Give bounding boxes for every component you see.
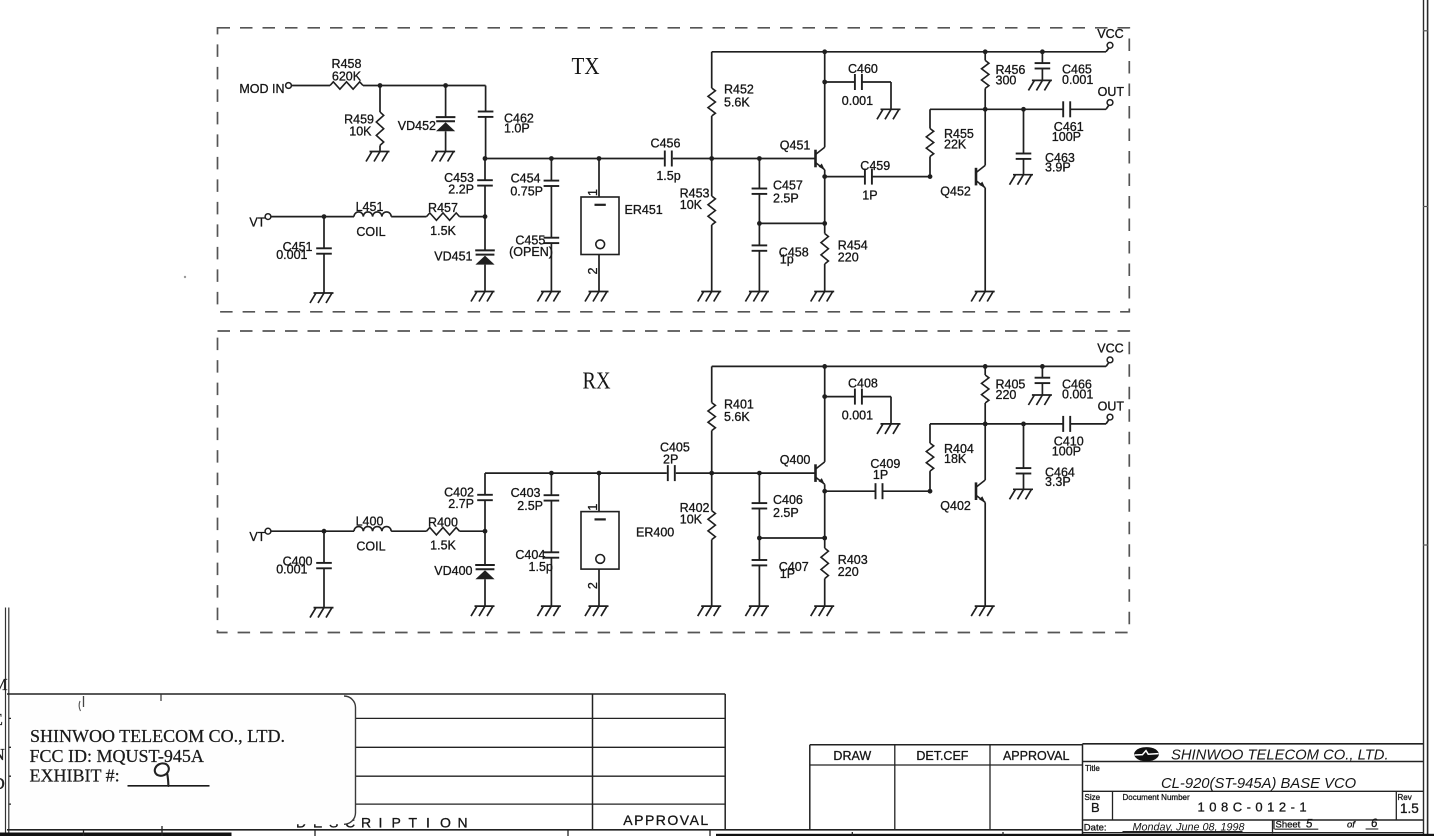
cut-off letters left margin xyxy=(0,675,8,793)
svg-text:OUT: OUT xyxy=(1098,85,1125,99)
svg-text:ER451: ER451 xyxy=(625,203,663,217)
svg-text:TX: TX xyxy=(572,54,600,80)
svg-text:CL-920(ST-945A) BASE VCO: CL-920(ST-945A) BASE VCO xyxy=(1161,776,1357,792)
ground VD451 xyxy=(471,292,495,302)
wire feedback row xyxy=(759,222,824,224)
junction node C460 tap xyxy=(822,80,827,85)
svg-text:FCC ID: MQUST-945A: FCC ID: MQUST-945A xyxy=(30,746,204,766)
svg-text:L451: L451 xyxy=(356,200,384,214)
capacitor C459 1P xyxy=(825,159,930,203)
ground R459 xyxy=(366,152,390,162)
capacitor C466 0.001 xyxy=(1035,366,1094,401)
wire Q402 emitter to ground xyxy=(984,502,986,606)
page right border xyxy=(1423,0,1428,836)
svg-text:C456: C456 xyxy=(651,136,681,150)
svg-text:Document Number: Document Number xyxy=(1123,793,1190,802)
ground Q402 emitter xyxy=(971,606,995,616)
svg-text:APPROVAL: APPROVAL xyxy=(1003,749,1070,763)
svg-text:C403: C403 xyxy=(511,486,541,500)
ground R402 xyxy=(698,606,722,616)
wire Q400 collector to VCC rail xyxy=(824,366,826,462)
svg-text:2: 2 xyxy=(586,582,600,589)
svg-text:M: M xyxy=(0,675,8,694)
junction node emitter xyxy=(822,174,827,179)
svg-text:0.75P: 0.75P xyxy=(510,184,543,198)
resistor R401 5.6K xyxy=(708,366,754,473)
wire coil to R400 xyxy=(391,530,426,532)
section title RX xyxy=(583,369,611,395)
wire VCC rail xyxy=(712,48,1109,52)
capacitor C406 2.5P xyxy=(752,473,803,538)
wire Q400 emitter down xyxy=(824,484,826,491)
wire MOD IN to R458 xyxy=(291,85,330,87)
resistor R457 1.5K xyxy=(427,201,486,238)
bottom scan edge marks xyxy=(0,826,1434,836)
capacitor C400 0.001 xyxy=(276,531,332,607)
capacitor C463 3.9P xyxy=(1016,109,1075,174)
junction dots on bus xyxy=(549,156,762,161)
ground R403 xyxy=(811,606,835,616)
ground R453 xyxy=(698,292,722,302)
wire Q451 emitter down xyxy=(824,170,826,177)
inductor L451 COIL xyxy=(354,200,391,239)
RX section dashed border xyxy=(218,331,1130,633)
capacitor C461 100P xyxy=(1052,101,1084,144)
svg-text:C457: C457 xyxy=(773,178,803,192)
svg-text:6: 6 xyxy=(1371,818,1378,830)
approval table xyxy=(810,745,1083,830)
varactor diode VD451 xyxy=(434,217,495,292)
resistor R402 10K xyxy=(680,473,716,606)
svg-text:3.9P: 3.9P xyxy=(1045,160,1071,174)
resistor R452 5.6K xyxy=(708,52,754,159)
svg-text:300: 300 xyxy=(996,73,1017,87)
junction dots on VCC rail xyxy=(822,49,1045,54)
svg-text:2.5P: 2.5P xyxy=(517,499,543,513)
svg-text:RX: RX xyxy=(583,369,611,395)
transistor Q402 xyxy=(940,480,985,513)
wire resonator bus xyxy=(485,472,816,474)
svg-text:1P: 1P xyxy=(862,188,877,202)
terminal OUT xyxy=(1098,85,1125,105)
ground VD452 xyxy=(432,152,456,162)
svg-text:2P: 2P xyxy=(663,452,678,466)
title block frame xyxy=(1083,744,1425,836)
svg-text:L400: L400 xyxy=(356,514,384,528)
wire Q452 emitter to ground xyxy=(984,188,986,292)
wire Q451 collector to VCC rail xyxy=(824,52,826,148)
svg-text:620K: 620K xyxy=(332,70,362,84)
transistor Q452 xyxy=(940,165,985,198)
svg-text:2.2P: 2.2P xyxy=(448,182,474,196)
wire R458 to C462 corner xyxy=(363,85,486,87)
FCC stamp white label xyxy=(11,695,356,825)
capacitor C460 0.001 xyxy=(825,62,891,110)
ground C400 xyxy=(310,608,334,618)
capacitor C404 1.5p xyxy=(515,548,559,606)
svg-text:SHINWOO TELECOM CO., LTD.: SHINWOO TELECOM CO., LTD. xyxy=(1171,748,1389,764)
svg-text:5.6K: 5.6K xyxy=(724,410,750,424)
svg-text:18K: 18K xyxy=(944,452,967,466)
terminal MOD IN xyxy=(239,82,291,96)
wire Q402 collector xyxy=(984,424,986,480)
capacitor C410 100P xyxy=(1052,416,1084,459)
svg-text:of: of xyxy=(1347,820,1356,831)
svg-text:E: E xyxy=(0,710,3,729)
svg-text:5.6K: 5.6K xyxy=(724,95,750,109)
svg-text:MOD IN: MOD IN xyxy=(239,82,284,96)
svg-text:C408: C408 xyxy=(848,376,878,390)
svg-text:Date:: Date: xyxy=(1084,823,1107,834)
capacitor C402 2.7P xyxy=(444,485,493,531)
ground C466 xyxy=(1028,395,1052,405)
capacitor C403 2.5P xyxy=(511,473,560,552)
svg-text:220: 220 xyxy=(838,565,859,579)
ground ER451 pin 2 xyxy=(585,292,609,302)
svg-text:D: D xyxy=(0,774,5,793)
svg-text:220: 220 xyxy=(838,250,859,264)
svg-text:100P: 100P xyxy=(1052,445,1081,459)
terminal VCC xyxy=(1097,342,1123,363)
svg-text:2.5P: 2.5P xyxy=(773,506,799,520)
terminal VCC xyxy=(1097,27,1123,48)
svg-text:1: 1 xyxy=(586,189,600,196)
title field xyxy=(1085,764,1357,792)
svg-text:VCC: VCC xyxy=(1097,27,1123,41)
resistor R404 18K xyxy=(926,424,974,491)
svg-text:0.001: 0.001 xyxy=(1062,388,1093,402)
svg-text:0.001: 0.001 xyxy=(1062,73,1093,87)
junction node VT line xyxy=(483,214,488,219)
varactor diode VD400 xyxy=(434,531,495,606)
svg-text:1.5p: 1.5p xyxy=(656,169,680,183)
svg-text:COIL: COIL xyxy=(356,225,385,239)
svg-text:3.3P: 3.3P xyxy=(1045,475,1071,489)
ground C463 xyxy=(1010,175,1034,185)
svg-text:108C-012-1: 108C-012-1 xyxy=(1198,800,1312,815)
transistor Q400 xyxy=(780,453,825,484)
capacitor C458 1p xyxy=(752,223,809,291)
svg-text:R457: R457 xyxy=(428,201,458,215)
sheet field xyxy=(1083,818,1425,832)
wire VT to coil xyxy=(271,530,354,532)
svg-text:1.5K: 1.5K xyxy=(430,224,456,238)
svg-text:2.7P: 2.7P xyxy=(448,497,474,511)
svg-text:0.001: 0.001 xyxy=(842,94,873,108)
ground C404 xyxy=(537,606,561,616)
ground C455 xyxy=(537,292,561,302)
svg-text:1: 1 xyxy=(586,504,600,511)
svg-text:VD452: VD452 xyxy=(398,119,436,133)
svg-text:1.0P: 1.0P xyxy=(504,122,530,136)
capacitor C464 3.3P xyxy=(1016,424,1075,489)
junction dots on VCC rail xyxy=(822,364,1045,369)
stray mark xyxy=(184,276,186,278)
capacitor C409 1P xyxy=(825,457,930,499)
capacitor C453 2.2P xyxy=(444,159,493,217)
junction node main bus left xyxy=(483,156,488,161)
svg-text:220: 220 xyxy=(996,388,1017,402)
svg-text:100P: 100P xyxy=(1052,130,1081,144)
junction node VT line xyxy=(483,529,488,534)
junction dots feedback row xyxy=(757,221,827,226)
svg-text:1p: 1p xyxy=(780,253,794,267)
resistor R400 1.5K xyxy=(427,515,486,552)
svg-text:EXHIBIT #:: EXHIBIT #: xyxy=(30,765,120,785)
size field xyxy=(1085,793,1101,815)
junction node base 2nd stage xyxy=(928,174,933,179)
wire resonator bus xyxy=(485,158,816,160)
svg-text:N: N xyxy=(0,745,5,764)
capacitor C455 (OPEN) xyxy=(509,233,559,291)
svg-text:1P: 1P xyxy=(780,567,795,581)
rev field xyxy=(1398,793,1419,816)
junction node base 2nd stage xyxy=(928,489,933,494)
ground Q452 emitter xyxy=(971,292,995,302)
date field xyxy=(1084,822,1245,834)
svg-text:VCC: VCC xyxy=(1097,342,1123,356)
wire VCC rail xyxy=(712,363,1109,367)
svg-text:(OPEN): (OPEN) xyxy=(509,245,553,259)
resistor R405 220 xyxy=(982,366,1026,424)
capacitor C456 1.5p xyxy=(651,136,681,183)
wire VT to coil xyxy=(271,216,354,218)
company logo xyxy=(1134,747,1159,761)
svg-text:0.001: 0.001 xyxy=(276,248,307,262)
svg-text:10K: 10K xyxy=(680,513,703,527)
svg-text:Q400: Q400 xyxy=(780,453,811,467)
ground C460 xyxy=(877,109,901,119)
ground VD400 xyxy=(471,606,495,616)
ground C408 xyxy=(877,424,901,434)
ground C407 xyxy=(745,606,769,616)
wire bus corner to C402 xyxy=(484,473,486,495)
capacitor C465 0.001 xyxy=(1035,52,1094,87)
svg-text:DRAW: DRAW xyxy=(833,749,871,763)
inductor L400 COIL xyxy=(354,514,391,553)
handwritten exhibit number xyxy=(153,761,171,786)
terminal VT xyxy=(249,214,271,230)
ground C451 xyxy=(310,293,334,303)
svg-text:10K: 10K xyxy=(349,124,372,138)
junction node emitter xyxy=(822,489,827,494)
junction node C408 tap xyxy=(822,394,827,399)
capacitor C457 2.5P xyxy=(752,159,803,224)
capacitor C408 0.001 xyxy=(825,376,891,424)
resistor R456 300 xyxy=(982,52,1026,110)
terminal OUT xyxy=(1098,400,1125,420)
resistor R459 10K xyxy=(344,86,384,152)
capacitor C451 0.001 xyxy=(276,217,332,293)
svg-text:C406: C406 xyxy=(773,493,803,507)
transistor Q451 xyxy=(780,138,825,169)
document number field xyxy=(1123,793,1312,815)
stamp text SHINWOO TELECOM xyxy=(30,726,286,786)
revision table left xyxy=(6,608,1083,836)
svg-text:C454: C454 xyxy=(511,171,541,185)
svg-text:C459: C459 xyxy=(860,159,890,173)
svg-text:10K: 10K xyxy=(680,198,703,212)
ground C458 xyxy=(745,292,769,302)
junction dots feedback row xyxy=(757,536,827,541)
junction dots collector node xyxy=(983,107,1026,112)
junction node VD452 xyxy=(443,83,448,88)
resistor R455 22K xyxy=(926,109,974,176)
svg-text:0.001: 0.001 xyxy=(276,562,307,576)
ground C465 xyxy=(1028,80,1052,90)
wire coil to R457 xyxy=(391,216,426,218)
svg-text:VT: VT xyxy=(249,530,265,544)
svg-text:APPROVAL: APPROVAL xyxy=(623,812,709,828)
resonator ER451 xyxy=(581,159,663,292)
svg-text:1.5p: 1.5p xyxy=(529,560,553,574)
svg-text:0.001: 0.001 xyxy=(842,409,873,423)
svg-text:22K: 22K xyxy=(944,137,967,151)
svg-text:Q452: Q452 xyxy=(940,185,971,199)
svg-text:VD451: VD451 xyxy=(434,249,472,263)
varactor diode VD452 xyxy=(398,86,456,152)
table header APPROVAL xyxy=(623,812,709,828)
wire collector node line xyxy=(930,420,1109,424)
resistor R454 220 xyxy=(821,177,868,292)
ground ER400 pin 2 xyxy=(585,606,609,616)
wire feedback row xyxy=(759,537,824,539)
junction dots collector node xyxy=(983,422,1026,427)
svg-text:ER400: ER400 xyxy=(636,526,674,540)
svg-text:Q402: Q402 xyxy=(940,499,971,513)
wire Q452 collector xyxy=(984,109,986,165)
resistor R458 620K xyxy=(330,57,363,89)
capacitor C407 1P xyxy=(752,538,809,606)
ground C464 xyxy=(1010,489,1034,499)
TX section dashed border xyxy=(218,28,1130,312)
junction node C451 xyxy=(322,214,327,219)
resonator ER400 xyxy=(581,473,674,606)
svg-text:R400: R400 xyxy=(428,515,458,529)
svg-text:1P: 1P xyxy=(873,468,888,482)
svg-text:Title: Title xyxy=(1085,764,1100,773)
svg-text:C460: C460 xyxy=(848,62,878,76)
capacitor C462 1.0P xyxy=(478,86,534,159)
capacitor C454 0.75P xyxy=(510,159,559,238)
terminal VT xyxy=(249,528,271,544)
svg-text:DET.CEF: DET.CEF xyxy=(916,749,968,763)
resistor R403 220 xyxy=(821,491,868,606)
company name xyxy=(1171,748,1389,764)
ground R454 xyxy=(811,292,835,302)
svg-text:1.5K: 1.5K xyxy=(430,538,456,552)
svg-text:OUT: OUT xyxy=(1098,400,1125,414)
section title TX xyxy=(572,54,600,80)
wire collector node line xyxy=(930,105,1109,109)
resistor R453 10K xyxy=(680,159,716,292)
capacitor C405 2P xyxy=(660,441,690,482)
svg-text:SHINWOO TELECOM CO., LTD.: SHINWOO TELECOM CO., LTD. xyxy=(30,726,285,746)
svg-text:2.5P: 2.5P xyxy=(773,192,799,206)
svg-text:1.5: 1.5 xyxy=(1400,801,1419,816)
junction node C400 xyxy=(322,529,327,534)
table header DESCRIPTION xyxy=(296,814,468,830)
junction dots on bus xyxy=(549,471,762,476)
svg-text:Q451: Q451 xyxy=(780,138,811,152)
svg-text:COIL: COIL xyxy=(356,540,385,554)
svg-text:VT: VT xyxy=(249,216,265,230)
svg-text:VD400: VD400 xyxy=(434,564,472,578)
junction node R459 xyxy=(378,83,383,88)
svg-text:2: 2 xyxy=(586,268,600,275)
svg-text:B: B xyxy=(1091,800,1100,815)
